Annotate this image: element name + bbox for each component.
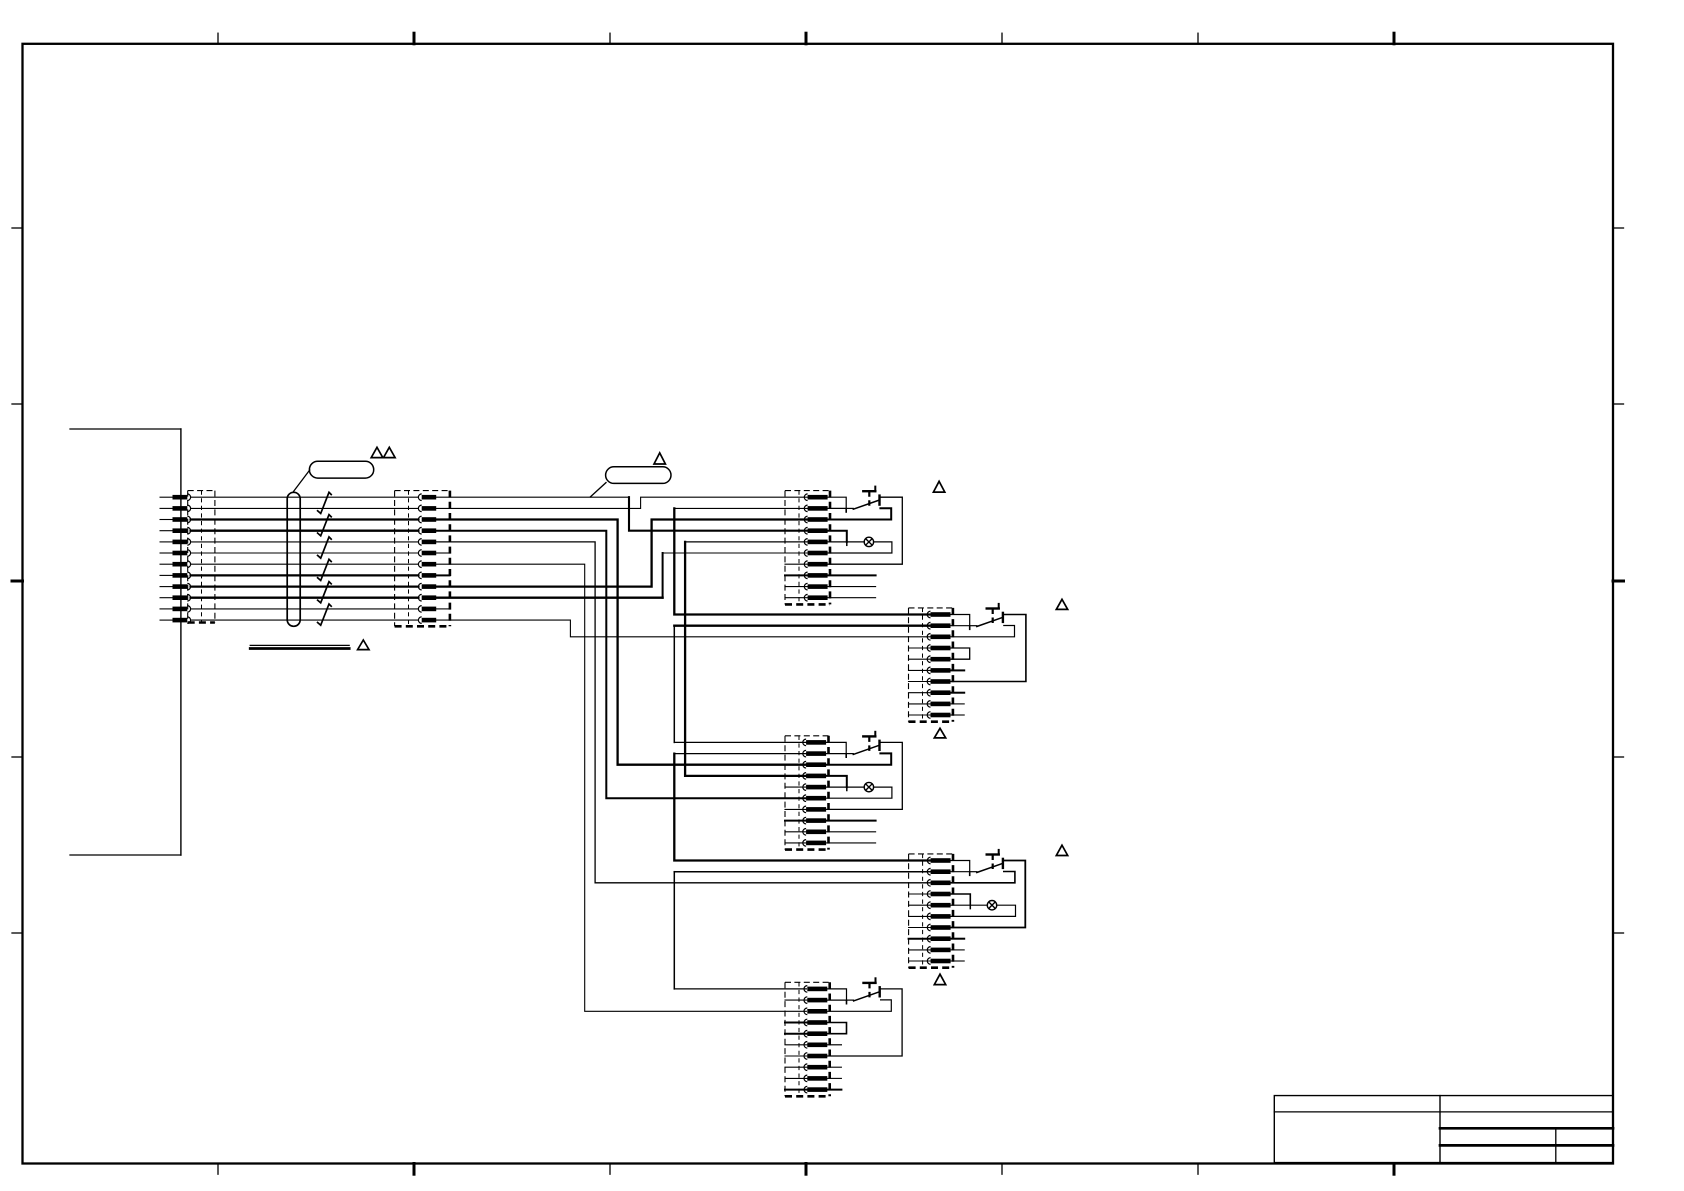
connector SW-D pin 2 <box>927 868 950 875</box>
lamp SW-D feed junction tick <box>969 906 971 908</box>
connector SW-A box top edge <box>785 490 830 492</box>
wire SW-C pin 7 left stub <box>785 808 806 810</box>
wire net W1: CN2 pin1 to SW-A pin4 <box>436 496 629 498</box>
ground bus double line thin <box>250 644 349 646</box>
wire SW-C loop: lever to pin7 return <box>826 742 902 809</box>
wire SW-B pin 9 stub right <box>951 703 965 705</box>
connector SW-D pin 4 <box>927 891 950 898</box>
connector SW-D box top edge <box>909 853 953 855</box>
wire net chain2: SW-B pin2 to SW-C pin1 <box>674 625 932 627</box>
switch SW-C pin2 wire <box>826 753 846 755</box>
switch SW-A actuator cap <box>863 490 875 492</box>
wire CN2 pin 6 stub right <box>436 552 449 554</box>
wire SW-E pin 5 left stub <box>785 1033 807 1035</box>
switch SW-C pin1 feed wire <box>826 742 846 753</box>
connector SW-C pin 2 <box>803 750 826 757</box>
connector CN2 pin 8 <box>418 572 436 579</box>
connector SW-A pin 8 <box>804 572 827 579</box>
switch SW-B pin2 wire <box>951 625 970 627</box>
connector SW-D box bottom edge <box>909 966 953 969</box>
switch SW-D pin2 wire <box>951 871 970 873</box>
frame tick top 4 <box>805 33 808 44</box>
connector CN1 pin 3 <box>160 516 191 523</box>
connector CN1 pin 7 <box>160 561 191 568</box>
connector SW-D pin 6 <box>927 913 950 920</box>
harness wrap oval <box>287 492 300 626</box>
wire SW-E pin 4 left stub <box>785 1022 807 1024</box>
wire net chain3: SW-C pin2 to SW-D pin1 <box>674 753 806 755</box>
wire SW-A loop: lever to pin7 return <box>828 497 903 564</box>
triangle at ground bus <box>358 640 369 650</box>
connector SW-C box left edge <box>784 736 786 850</box>
wire net W3: CN2 pin3 to SW-C pin3 <box>436 520 806 765</box>
connector CN1 pin 4 <box>160 527 191 534</box>
connector SW-E box top edge <box>785 981 830 983</box>
wire net W7: CN2 pin7 to SW-E pin3 <box>436 564 806 1011</box>
switch SW-A lever tip contact <box>878 496 880 505</box>
wire SW-C pin 5 left stub <box>785 786 806 788</box>
frame tick right 2 <box>1613 403 1624 405</box>
wire harness row 5 CN1 to CN2 <box>191 541 419 543</box>
revision triangle near L2 <box>654 453 665 464</box>
switch SW-D actuator cap tick <box>998 850 1000 855</box>
twist mark 2 <box>318 515 332 536</box>
frame tick right 4 <box>1613 756 1624 758</box>
frame tick bottom 4 <box>805 1164 808 1175</box>
connector CN1 pin 9 <box>160 583 191 590</box>
connector CN2 pin 2 <box>418 505 436 512</box>
connector SW-A pin 7 <box>804 561 827 568</box>
wire harness row 12 CN1 to CN2 <box>191 619 419 621</box>
connector SW-C box bottom edge <box>785 848 829 851</box>
connector SW-C box right edge <box>827 736 830 850</box>
frame tick left 4 <box>12 756 23 758</box>
frame tick right 5 <box>1613 932 1624 934</box>
wire SW-E pin 8 left stub <box>785 1066 807 1068</box>
connector SW-A box bottom edge <box>785 603 830 606</box>
switch SW-A pin1 feed wire <box>828 497 847 508</box>
wire net W4: CN2 pin4 to SW-C pin6 <box>436 531 806 799</box>
switch SW-A pivot link <box>846 507 853 509</box>
title block row divider <box>1274 1111 1613 1113</box>
connector SW-B pin 3 <box>927 634 950 641</box>
wire harness row 1 CN1 to CN2 <box>191 496 419 498</box>
wire net W9: CN2 pin9 to SW-A pin3 <box>436 520 807 587</box>
switch SW-D lever <box>977 863 1003 872</box>
revision triangle near L1 (2) <box>384 447 396 457</box>
connector SW-C pin 10 <box>803 840 826 847</box>
wire SW-B pin 8 left stub <box>909 692 931 694</box>
connector SW-C pin 9 <box>803 829 826 836</box>
frame tick bottom 2 <box>413 1164 416 1175</box>
wire net W2: CN2 pin2 to SW-A pin1 <box>436 497 807 508</box>
connector SW-B pin 8 <box>927 689 950 696</box>
wire SW-B pin 6 left stub <box>909 669 931 671</box>
connector SW-A pin 6 <box>804 550 827 557</box>
switch SW-B actuator cap <box>987 607 999 609</box>
frame tick left 1 <box>12 227 23 229</box>
wire SW-E pin 8 stub right <box>827 1066 841 1068</box>
connector CN1 pin 2 <box>160 505 191 512</box>
title block right thick divider 2 <box>1440 1144 1613 1147</box>
switch SW-B actuator cap tick <box>998 604 1000 609</box>
frame tick top 5 <box>1001 33 1003 44</box>
connector SW-D pin 7 <box>927 924 950 931</box>
connector CN1 pin 12 <box>160 617 191 624</box>
connector CN1 box internal partition <box>201 491 203 623</box>
switch SW-A lever <box>853 500 879 509</box>
wire SW-C pin 8 left stub <box>785 820 806 822</box>
connector SW-A box left edge <box>784 491 786 605</box>
connector SW-C pin 7 <box>803 806 826 813</box>
frame tick top 1 <box>217 33 219 44</box>
wire net chain4: SW-D pin2 to SW-E pin1 <box>674 871 932 873</box>
frame tick top 2 <box>413 33 416 44</box>
wire SW-D pin 9 left stub <box>909 949 931 951</box>
triangle marker below SW-D <box>934 974 945 984</box>
wire harness row 9 CN1 to CN2 <box>191 585 419 587</box>
connector SW-B pin 1 <box>927 611 950 618</box>
wire SW-D pin 8 left stub <box>909 938 931 940</box>
twist mark 3 <box>318 537 332 558</box>
wire SW-A pin 8 left stub <box>785 574 808 576</box>
switch SW-D lever tip contact <box>1002 859 1004 868</box>
switch SW-C lever tip contact <box>878 741 880 750</box>
connector CN2 box internal partition <box>408 491 410 627</box>
connector SW-B pin 10 <box>927 712 950 719</box>
switch SW-A pin2 wire <box>828 507 847 509</box>
connector SW-B pin 5 <box>927 656 950 663</box>
wire SW-A pin3 jog to second contact <box>828 508 892 519</box>
connector SW-E box bottom edge <box>785 1095 830 1098</box>
connector CN2 box left edge <box>394 491 396 627</box>
connector SW-C pin 8 <box>803 817 826 824</box>
frame tick top 6 <box>1197 33 1199 44</box>
wire SW-E jumper pin4-pin5 <box>827 1023 846 1034</box>
wire SW-A pin 10 left stub <box>785 597 808 599</box>
switch SW-D pivot link <box>970 871 977 873</box>
connector CN1 box right edge <box>214 491 216 623</box>
wire net W5: CN2 pin5 to SW-D pin3 <box>436 542 932 883</box>
connector SW-C pin 6 <box>803 795 826 802</box>
connector CN1 pin 11 <box>160 606 191 613</box>
title block center vertical divider <box>1439 1096 1441 1163</box>
wire SW-B pin 10 left stub <box>909 714 931 716</box>
balloon L2 leader line <box>590 483 606 497</box>
switch SW-E actuator stem <box>868 983 870 1001</box>
connector SW-B pin 2 <box>927 622 950 629</box>
connector CN1 pin 5 <box>160 539 191 546</box>
connector SW-B box right edge <box>952 608 955 722</box>
connector SW-A pin 9 <box>804 583 827 590</box>
connector CN1 pin 10 <box>160 594 191 601</box>
switch SW-A actuator cap tick <box>874 487 876 492</box>
connector CN1 box top edge <box>188 490 215 492</box>
frame tick top 7 <box>1393 33 1396 44</box>
wire SW-B pin 10 stub right <box>951 714 965 716</box>
connector SW-D pin 8 <box>927 935 950 942</box>
switch SW-C contact tick <box>845 755 847 757</box>
twist mark 5 <box>318 582 332 603</box>
switch SW-A actuator stem <box>868 491 870 509</box>
connector SW-B box left edge <box>908 608 910 722</box>
frame tick right 1 <box>1613 227 1624 229</box>
connector CN1 pin 8 <box>160 572 191 579</box>
frame tick top 3 <box>609 33 611 44</box>
frame tick bottom 5 <box>1001 1164 1003 1175</box>
wire SW-E pin 10 left stub <box>785 1089 807 1091</box>
ECU box bottom edge <box>70 854 181 856</box>
connector CN2 pin 11 <box>418 606 436 613</box>
switch SW-C actuator stem <box>868 736 870 754</box>
switch SW-D actuator stem <box>992 855 994 873</box>
wire harness row 10 CN1 to CN2 <box>191 597 419 599</box>
frame tick left 2 <box>12 403 23 405</box>
wire SW-D pin5 to lamp <box>951 904 988 906</box>
connector SW-A pin 10 <box>804 594 827 601</box>
wire harness row 4 CN1 to CN2 <box>191 530 419 532</box>
lamp SW-A <box>864 537 873 546</box>
switch SW-D actuator cap <box>987 853 999 855</box>
switch SW-C pivot link <box>846 753 853 755</box>
wire harness row 2 CN1 to CN2 <box>191 507 419 509</box>
connector CN1 pin 1 <box>160 494 191 501</box>
wire SW-E pin 6 stub right <box>827 1044 841 1046</box>
connector SW-D pin 1 <box>927 857 950 864</box>
wire SW-E pin3 jog to second contact <box>827 1000 891 1011</box>
connector CN1 box left edge <box>187 491 189 623</box>
connector SW-E pin 9 <box>804 1075 827 1082</box>
switch SW-E contact tick <box>846 1001 848 1003</box>
wire SW-B pin 5 left stub <box>909 658 931 660</box>
wire SW-C lamp feed pin4 <box>826 776 847 787</box>
wire net W6: SW-A pin5 to SW-C pin4 <box>685 541 808 543</box>
wire SW-C pin 10 left stub <box>785 842 806 844</box>
connector SW-D pin 9 <box>927 947 950 954</box>
switch SW-E actuator cap tick <box>875 978 877 983</box>
connector SW-A pin 1 <box>804 494 827 501</box>
connector SW-B box bottom edge <box>909 720 953 723</box>
lamp SW-C feed junction tick <box>846 788 848 790</box>
triangle marker right of SW-B switch <box>1056 599 1067 609</box>
wire SW-D lamp return to pin6 <box>951 905 1016 916</box>
connector SW-A box internal partition <box>798 491 800 605</box>
connector SW-C pin 4 <box>803 773 826 780</box>
connector SW-E pin 10 <box>804 1086 827 1093</box>
balloon label L2 <box>606 467 671 484</box>
connector SW-E pin 2 <box>804 997 827 1004</box>
title block right thick divider 1 <box>1440 1127 1613 1130</box>
connector SW-D pin 3 <box>927 880 950 887</box>
wire SW-B pin 7 left stub <box>909 681 931 683</box>
switch SW-E lever <box>854 992 880 1001</box>
connector SW-B box internal partition <box>922 608 924 722</box>
switch SW-B lever tip contact <box>1002 613 1004 622</box>
triangle marker right of SW-A <box>933 481 944 492</box>
wire harness row 6 CN1 to CN2 <box>191 552 419 554</box>
wire net chain1: SW-A pin2 to SW-B pin1 <box>674 507 807 509</box>
twist mark 4 <box>318 559 332 580</box>
connector CN2 box bottom edge <box>395 625 450 628</box>
connector SW-D box left edge <box>908 854 910 968</box>
connector SW-D box right edge <box>952 854 955 968</box>
frame tick bottom 3 <box>609 1164 611 1175</box>
switch SW-B lever <box>977 617 1003 626</box>
connector SW-E pin 6 <box>804 1042 827 1049</box>
frame tick right 3 <box>1613 580 1624 583</box>
connector SW-E pin 5 <box>804 1030 827 1037</box>
connector SW-B pin 4 <box>927 645 950 652</box>
connector CN2 pin 4 <box>418 527 436 534</box>
wire CN2 pin 8 stub right <box>436 574 449 576</box>
connector SW-E pin 7 <box>804 1053 827 1060</box>
connector SW-A box right edge <box>829 491 832 605</box>
wire SW-E pin 9 left stub <box>785 1077 807 1079</box>
connector SW-B pin 9 <box>927 701 950 708</box>
balloon L1 leader line <box>294 470 310 492</box>
triangle marker right of SW-D switch <box>1056 845 1067 855</box>
wire SW-D pin3 jog to second contact <box>951 872 1015 883</box>
wire SW-A pin 9 stub right <box>828 586 876 588</box>
wire SW-B pin3 jog to second contact <box>951 626 1015 637</box>
wire SW-E pin 10 stub right <box>827 1089 841 1091</box>
wire net W10: CN2 pin10 to SW-A pin6 <box>436 597 662 599</box>
connector CN2 pin 6 <box>418 550 436 557</box>
switch SW-C actuator cap <box>863 735 875 737</box>
wire SW-C pin 8 stub right <box>826 820 876 822</box>
wire SW-D pin 6 left stub <box>909 915 931 917</box>
wire harness row 7 CN1 to CN2 <box>191 563 419 565</box>
switch SW-B actuator stem <box>992 609 994 627</box>
wire SW-A pin 7 left stub <box>785 563 808 565</box>
connector CN2 pin 9 <box>418 583 436 590</box>
frame tick left 3 <box>12 580 23 583</box>
wire SW-D lamp feed pin4 <box>951 894 971 905</box>
triangle marker below SW-B <box>934 728 945 738</box>
wire SW-A pin 10 stub right <box>828 597 876 599</box>
title block right small vertical divider <box>1555 1128 1557 1162</box>
wire SW-D pin 10 stub right <box>951 960 965 962</box>
switch SW-B pivot link <box>970 625 977 627</box>
lamp SW-C <box>864 782 873 791</box>
wire SW-E pin 7 left stub <box>785 1055 807 1057</box>
wire SW-B pin 6 stub right <box>951 669 965 671</box>
wire SW-D pin 4 left stub <box>909 893 931 895</box>
switch SW-E pivot link <box>847 999 854 1001</box>
connector CN2 box top edge <box>395 490 450 492</box>
frame tick bottom 1 <box>217 1164 219 1175</box>
switch SW-B pin1 feed wire <box>951 615 970 626</box>
connector SW-A pin 2 <box>804 505 827 512</box>
connector SW-E box right edge <box>828 982 831 1096</box>
wire SW-A pin5 to lamp <box>828 541 865 543</box>
lamp SW-D <box>987 901 996 910</box>
wire SW-B pin 9 left stub <box>909 703 931 705</box>
switch SW-D contact tick <box>969 873 971 875</box>
connector CN2 pin 1 <box>418 494 436 501</box>
wire SW-D pin 7 left stub <box>909 927 931 929</box>
switch SW-C actuator cap tick <box>874 732 876 737</box>
wire SW-A lamp return to pin6 <box>828 542 892 553</box>
connector CN2 pin 12 <box>418 617 436 624</box>
connector CN2 pin 3 <box>418 516 436 523</box>
wire SW-D pin 10 left stub <box>909 960 931 962</box>
frame tick bottom 7 <box>1393 1164 1396 1175</box>
connector SW-C pin 3 <box>803 761 826 768</box>
frame tick bottom 6 <box>1197 1164 1199 1175</box>
wire SW-B pin 8 stub right <box>951 692 965 694</box>
twist mark 1 <box>318 492 332 513</box>
switch SW-E actuator cap <box>864 982 876 984</box>
wire SW-E pin 9 stub right <box>827 1077 841 1079</box>
connector SW-C pin 5 <box>803 784 826 791</box>
switch SW-D pin1 feed wire <box>951 861 970 872</box>
wire SW-C pin 9 stub right <box>826 831 876 833</box>
wire SW-B loop: lever to pin7 return <box>951 615 1026 682</box>
connector CN2 pin 7 <box>418 561 436 568</box>
wire CN2 pin 11 stub right <box>436 608 449 610</box>
wire SW-C pin 9 left stub <box>785 831 806 833</box>
connector SW-E pin 8 <box>804 1064 827 1071</box>
wire SW-B pin 4 left stub <box>909 647 931 649</box>
switch SW-A contact tick <box>845 510 847 512</box>
frame tick left 5 <box>12 932 23 934</box>
ECU box right edge <box>180 429 182 855</box>
wire SW-E pin 6 left stub <box>785 1044 807 1046</box>
ground bus double line thick <box>250 647 349 650</box>
wire SW-C pin 10 stub right <box>826 842 876 844</box>
connector CN1 pin 6 <box>160 550 191 557</box>
connector SW-C box internal partition <box>798 736 800 850</box>
wire SW-E loop: lever to pin7 return <box>827 989 902 1056</box>
switch SW-B contact tick <box>969 627 971 629</box>
connector SW-D box internal partition <box>922 854 924 968</box>
connector SW-A pin 3 <box>804 516 827 523</box>
twist mark 6 <box>318 604 332 625</box>
switch SW-E pin2 wire <box>827 999 846 1001</box>
wire SW-C lamp return to pin6 <box>826 787 892 798</box>
connector SW-B pin 7 <box>927 678 950 685</box>
switch SW-E lever tip contact <box>879 987 881 996</box>
connector SW-A pin 5 <box>804 539 827 546</box>
revision triangle near L1 (1) <box>371 447 383 457</box>
connector SW-D pin 10 <box>927 958 950 965</box>
connector CN2 pin 10 <box>418 594 436 601</box>
connector SW-E box left edge <box>784 982 786 1096</box>
wire SW-D loop: lever to pin7 return <box>951 861 1026 928</box>
connector SW-A pin 4 <box>804 527 827 534</box>
connector SW-E pin 4 <box>804 1019 827 1026</box>
wire SW-A pin 9 left stub <box>785 586 808 588</box>
connector SW-E pin 3 <box>804 1008 827 1015</box>
wire harness row 3 CN1 to CN2 <box>191 518 419 520</box>
lamp SW-A feed junction tick <box>846 543 848 545</box>
wire SW-C pin5 to lamp <box>826 786 864 788</box>
switch SW-C lever <box>853 745 879 754</box>
wire SW-D pin 8 stub right <box>951 938 965 940</box>
connector CN1 box bottom edge <box>188 621 215 624</box>
wire SW-D pin 9 stub right <box>951 949 965 951</box>
balloon label L1 <box>309 461 373 478</box>
connector SW-E pin 1 <box>804 986 827 993</box>
wire SW-C pin3 jog to second contact <box>826 753 891 764</box>
wire SW-A pin 8 stub right <box>828 574 876 576</box>
wire SW-D pin 5 left stub <box>909 904 931 906</box>
connector SW-E box internal partition <box>798 982 800 1096</box>
connector SW-C box top edge <box>785 735 829 737</box>
wire harness row 8 CN1 to CN2 <box>191 574 419 576</box>
wire SW-E pin 2 left stub <box>785 999 807 1001</box>
